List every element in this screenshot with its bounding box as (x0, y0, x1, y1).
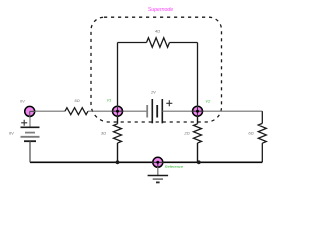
svg-text:Supernode: Supernode (148, 7, 173, 13)
wire bus: V2 to right branch (198, 110, 263, 112)
resistor R4 2ohm (below V2) (194, 124, 202, 143)
node V2 (192, 105, 204, 117)
svg-text:3Ω: 3Ω (101, 131, 106, 136)
svg-text:2V: 2V (150, 89, 156, 94)
node Reference (152, 157, 164, 168)
battery V1src 6V (21, 127, 40, 141)
wire: R3 to bottom bus (117, 143, 119, 162)
wire loop top right (170, 42, 198, 44)
svg-text:5Ω: 5Ω (74, 98, 79, 103)
wire loop top left (118, 42, 147, 44)
wire: R5 to bottom bus corner (261, 143, 263, 162)
plus sign of battery 6V (21, 120, 27, 126)
svg-text:2Ω: 2Ω (183, 131, 189, 136)
wire: battery 6V to bottom bus (29, 141, 31, 162)
wire bottom bus (30, 161, 262, 163)
wire bus left: node 6V to resistor R1 (30, 110, 65, 112)
wire bus: V1 to battery 2V (118, 110, 148, 112)
node V1 (112, 105, 124, 117)
resistor R5 6ohm (right) (258, 123, 266, 143)
wire bus: battery 2V to node V2 (162, 110, 197, 112)
junction dot V1 resistor bottom (116, 160, 120, 164)
svg-text:4Ω: 4Ω (155, 29, 160, 34)
wire bus: R1 to node V1 (88, 110, 118, 112)
svg-text:V1: V1 (106, 98, 111, 103)
wire loop right vertical (down to V2) (197, 43, 199, 112)
svg-text:Reference: Reference (165, 164, 184, 169)
ground (148, 167, 169, 182)
plus sign of battery 2V (166, 100, 172, 106)
battery V2src 2V (147, 99, 162, 123)
svg-text:V2: V2 (205, 98, 211, 103)
wire loop left vertical (V1 up) (117, 43, 119, 112)
wire: left node down to battery 6V (29, 111, 31, 127)
wire: R4 to bottom bus (197, 143, 199, 162)
resistor R2 4ohm (147, 38, 170, 48)
wire right branch down (261, 111, 263, 123)
svg-text:6V: 6V (20, 98, 25, 103)
resistor R1 5ohm (65, 108, 88, 115)
resistor R3 3ohm (below V1) (114, 124, 122, 143)
svg-text:6V: 6V (9, 131, 14, 136)
node 6V (left) (25, 106, 36, 117)
svg-text:6Ω: 6Ω (248, 131, 253, 136)
wire: V2 down to resistor R4 (197, 111, 199, 124)
junction dot V2 resistor bottom (197, 160, 201, 164)
wire: V1 down to resistor R3 (117, 111, 119, 124)
supernode boundary (dashed) (91, 17, 222, 122)
